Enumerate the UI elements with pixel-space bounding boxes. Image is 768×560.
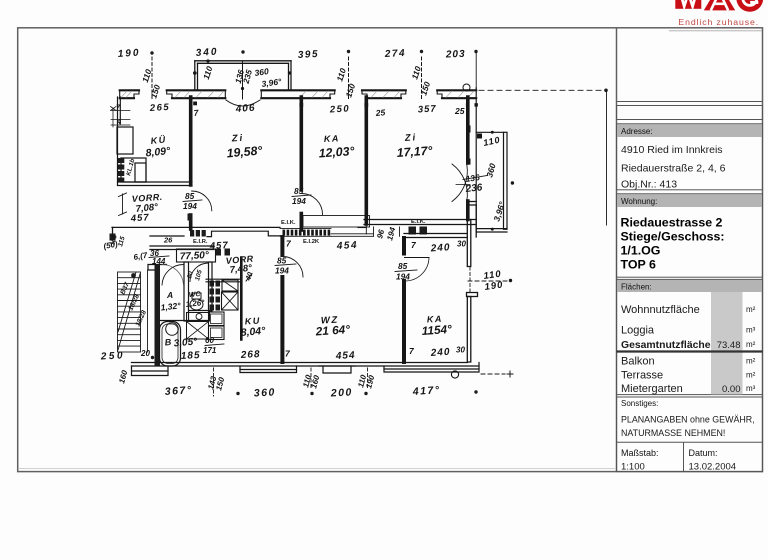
svg-text:194: 194 — [275, 266, 289, 276]
svg-text:357: 357 — [418, 104, 437, 116]
svg-text:160: 160 — [117, 369, 129, 385]
svg-text:m²: m² — [746, 371, 756, 380]
svg-text:18/28: 18/28 — [127, 293, 141, 312]
svg-text:85: 85 — [398, 261, 408, 271]
svg-text:3,96°: 3,96° — [261, 76, 283, 89]
svg-text:110: 110 — [482, 135, 501, 148]
svg-text:E.I.K.: E.I.K. — [281, 220, 296, 226]
svg-text:360: 360 — [254, 386, 277, 399]
svg-text:274: 274 — [384, 48, 407, 60]
svg-text:0.00: 0.00 — [722, 384, 741, 395]
svg-text:Riedauestrasse 2: Riedauestrasse 2 — [621, 216, 723, 230]
svg-text:19,58°: 19,58° — [226, 143, 263, 160]
svg-text:4910 Ried im Innkreis: 4910 Ried im Innkreis — [621, 144, 723, 156]
svg-text:190: 190 — [117, 47, 140, 60]
svg-text:85: 85 — [294, 186, 304, 196]
svg-text:KA: KA — [324, 133, 341, 144]
svg-text:194: 194 — [292, 196, 306, 206]
svg-text:m³: m³ — [746, 326, 756, 335]
svg-text:250: 250 — [100, 350, 126, 362]
svg-text:150: 150 — [148, 83, 162, 100]
svg-text:240: 240 — [429, 242, 450, 254]
svg-text:Datum:: Datum: — [689, 448, 718, 458]
svg-text:Wohnnutzfläche: Wohnnutzfläche — [621, 304, 700, 316]
svg-text:77,50°: 77,50° — [180, 250, 211, 263]
svg-text:194: 194 — [183, 201, 197, 211]
svg-text:171: 171 — [203, 346, 217, 355]
svg-text:268: 268 — [240, 349, 261, 361]
svg-text:B: B — [164, 337, 172, 348]
svg-text:144: 144 — [152, 257, 166, 266]
svg-text:Obj.Nr.: 413: Obj.Nr.: 413 — [621, 179, 677, 191]
svg-text:7: 7 — [193, 107, 200, 118]
svg-text:Wohnung:: Wohnung: — [621, 197, 657, 206]
svg-text:21 64°: 21 64° — [314, 322, 350, 338]
svg-text:203: 203 — [445, 49, 466, 61]
svg-text:Adresse:: Adresse: — [621, 127, 653, 136]
svg-text:Balkon: Balkon — [621, 356, 655, 368]
svg-text:1/1.OG: 1/1.OG — [621, 244, 661, 258]
svg-text:Flächen:: Flächen: — [621, 283, 652, 292]
svg-text:110: 110 — [334, 67, 348, 83]
svg-text:17,17°: 17,17° — [396, 144, 433, 160]
svg-text:Terrasse: Terrasse — [621, 370, 663, 382]
svg-text:3,96°: 3,96° — [491, 200, 507, 223]
svg-text:200: 200 — [330, 386, 354, 399]
svg-text:E.I.K.: E.I.K. — [411, 219, 426, 225]
svg-text:1154°: 1154° — [421, 322, 452, 338]
svg-text:m³: m³ — [746, 384, 756, 393]
svg-text:395: 395 — [298, 49, 320, 61]
svg-text:Endlich zuhause.: Endlich zuhause. — [678, 17, 759, 27]
svg-text:194: 194 — [396, 272, 410, 282]
svg-text:30: 30 — [457, 240, 466, 249]
svg-text:73.48: 73.48 — [717, 340, 741, 351]
svg-text:TOP 6: TOP 6 — [621, 258, 656, 272]
svg-text:105: 105 — [194, 269, 204, 282]
svg-text:Stiege/Geschoss:: Stiege/Geschoss: — [621, 230, 725, 244]
svg-text:8,09°: 8,09° — [145, 145, 172, 160]
svg-text:194: 194 — [385, 226, 397, 242]
svg-text:Gesamtnutzfläche: Gesamtnutzfläche — [621, 340, 711, 351]
svg-text:240: 240 — [429, 347, 450, 359]
svg-text:Loggia: Loggia — [621, 325, 655, 337]
svg-text:12,03°: 12,03° — [318, 144, 355, 160]
svg-text:PLANANGABEN ohne GEWÄHR,: PLANANGABEN ohne GEWÄHR, — [621, 415, 755, 425]
svg-text:m²: m² — [746, 340, 756, 349]
svg-text:3,05°: 3,05° — [173, 336, 198, 349]
svg-text:1:100: 1:100 — [621, 462, 645, 473]
svg-text:110: 110 — [201, 65, 215, 81]
svg-text:A: A — [166, 290, 173, 300]
svg-text:457: 457 — [209, 240, 229, 252]
svg-text:236: 236 — [464, 182, 483, 195]
svg-text:Mietergarten: Mietergarten — [621, 383, 683, 395]
svg-text:25: 25 — [454, 106, 465, 116]
svg-text:85: 85 — [277, 256, 287, 266]
svg-text:265: 265 — [149, 102, 171, 114]
svg-text:Maßstab:: Maßstab: — [621, 448, 659, 458]
svg-text:185: 185 — [181, 350, 201, 362]
svg-text:360: 360 — [484, 162, 497, 179]
svg-text:417°: 417° — [411, 384, 440, 398]
svg-text:367°: 367° — [164, 384, 192, 398]
svg-text:1,32°: 1,32° — [160, 300, 181, 312]
svg-text:250: 250 — [329, 103, 351, 115]
svg-text:85: 85 — [185, 191, 195, 201]
svg-text:13.02.2004: 13.02.2004 — [689, 462, 737, 473]
svg-text:115: 115 — [117, 235, 127, 247]
svg-text:7: 7 — [409, 346, 415, 356]
svg-text:340: 340 — [195, 46, 218, 59]
svg-text:Zi: Zi — [230, 133, 244, 145]
svg-text:25: 25 — [374, 107, 386, 118]
svg-text:360: 360 — [254, 66, 270, 78]
svg-text:150: 150 — [418, 80, 432, 97]
svg-text:60: 60 — [205, 336, 214, 345]
svg-text:E.I.2K: E.I.2K — [303, 239, 320, 245]
svg-text:E.I.R.: E.I.R. — [193, 239, 208, 245]
svg-text:457: 457 — [129, 212, 150, 224]
svg-text:7: 7 — [285, 349, 291, 359]
svg-text:30: 30 — [456, 346, 465, 355]
svg-text:m²: m² — [746, 305, 756, 314]
svg-text:26: 26 — [163, 236, 173, 245]
svg-text:Sonstiges:: Sonstiges: — [621, 399, 658, 408]
svg-text:20: 20 — [140, 349, 150, 358]
svg-text:7: 7 — [286, 239, 292, 249]
svg-text:KÜ: KÜ — [150, 134, 167, 146]
svg-text:454: 454 — [335, 350, 356, 362]
svg-text:406: 406 — [234, 103, 255, 115]
svg-text:190: 190 — [484, 279, 504, 293]
svg-text:110: 110 — [409, 65, 423, 81]
svg-text:7: 7 — [411, 240, 417, 250]
svg-text:Zi: Zi — [403, 132, 417, 144]
svg-text:m²: m² — [746, 357, 756, 366]
svg-text:NATURMASSE NEHMEN!: NATURMASSE NEHMEN! — [621, 428, 725, 438]
svg-text:454: 454 — [336, 240, 359, 252]
svg-text:8,04°: 8,04° — [240, 325, 266, 339]
svg-text:4: 4 — [116, 117, 122, 126]
svg-text:150: 150 — [343, 82, 357, 99]
svg-text:Riedauerstraße 2, 4, 6: Riedauerstraße 2, 4, 6 — [621, 163, 726, 175]
svg-text:6,(7: 6,(7 — [133, 251, 149, 262]
svg-text:7,48°: 7,48° — [229, 263, 253, 276]
